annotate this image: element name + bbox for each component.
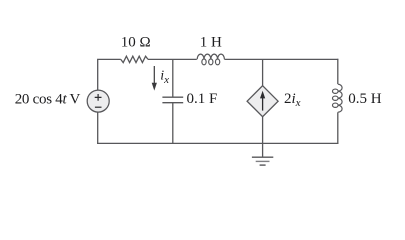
svg-text:2ix: 2ix xyxy=(284,91,301,109)
voltage source Vs circle xyxy=(87,90,109,112)
ground stem xyxy=(262,143,264,157)
wire top-right segment xyxy=(224,58,338,60)
wire left-bottom segment xyxy=(97,112,99,144)
wire right branch bottom xyxy=(337,112,339,144)
current arrow ix xyxy=(152,66,157,91)
voltage source minus sign xyxy=(95,106,102,108)
wire right branch top xyxy=(337,59,339,84)
wire dependent source branch bottom xyxy=(262,117,264,144)
svg-text:1 H: 1 H xyxy=(200,34,222,50)
inductor L1 1H coil xyxy=(197,54,224,65)
inductor L2 0.5H coil xyxy=(333,84,343,112)
svg-text:0.1 F: 0.1 F xyxy=(187,91,218,107)
wire dependent source branch top xyxy=(262,59,264,86)
dependent current source diamond xyxy=(247,86,278,117)
voltage source plus sign xyxy=(95,94,102,101)
wire bottom segment xyxy=(97,142,338,144)
resistor R 10 ohm zigzag xyxy=(121,56,148,62)
svg-text:20 cos 4t V: 20 cos 4t V xyxy=(15,92,81,108)
wire capacitor branch bottom xyxy=(172,103,174,144)
wire capacitor branch top xyxy=(172,59,174,97)
wire top-left segment xyxy=(98,59,121,90)
dependent source arrow up xyxy=(260,91,265,111)
svg-text:0.5 H: 0.5 H xyxy=(348,91,382,107)
svg-text:10 Ω: 10 Ω xyxy=(121,34,151,50)
wire top-middle segment xyxy=(148,58,197,60)
capacitor C 0.1F plates xyxy=(162,97,183,103)
ground bar long xyxy=(252,156,273,158)
ground bar middle xyxy=(256,160,270,162)
svg-text:ix: ix xyxy=(160,69,169,86)
ground bar short xyxy=(260,164,266,166)
